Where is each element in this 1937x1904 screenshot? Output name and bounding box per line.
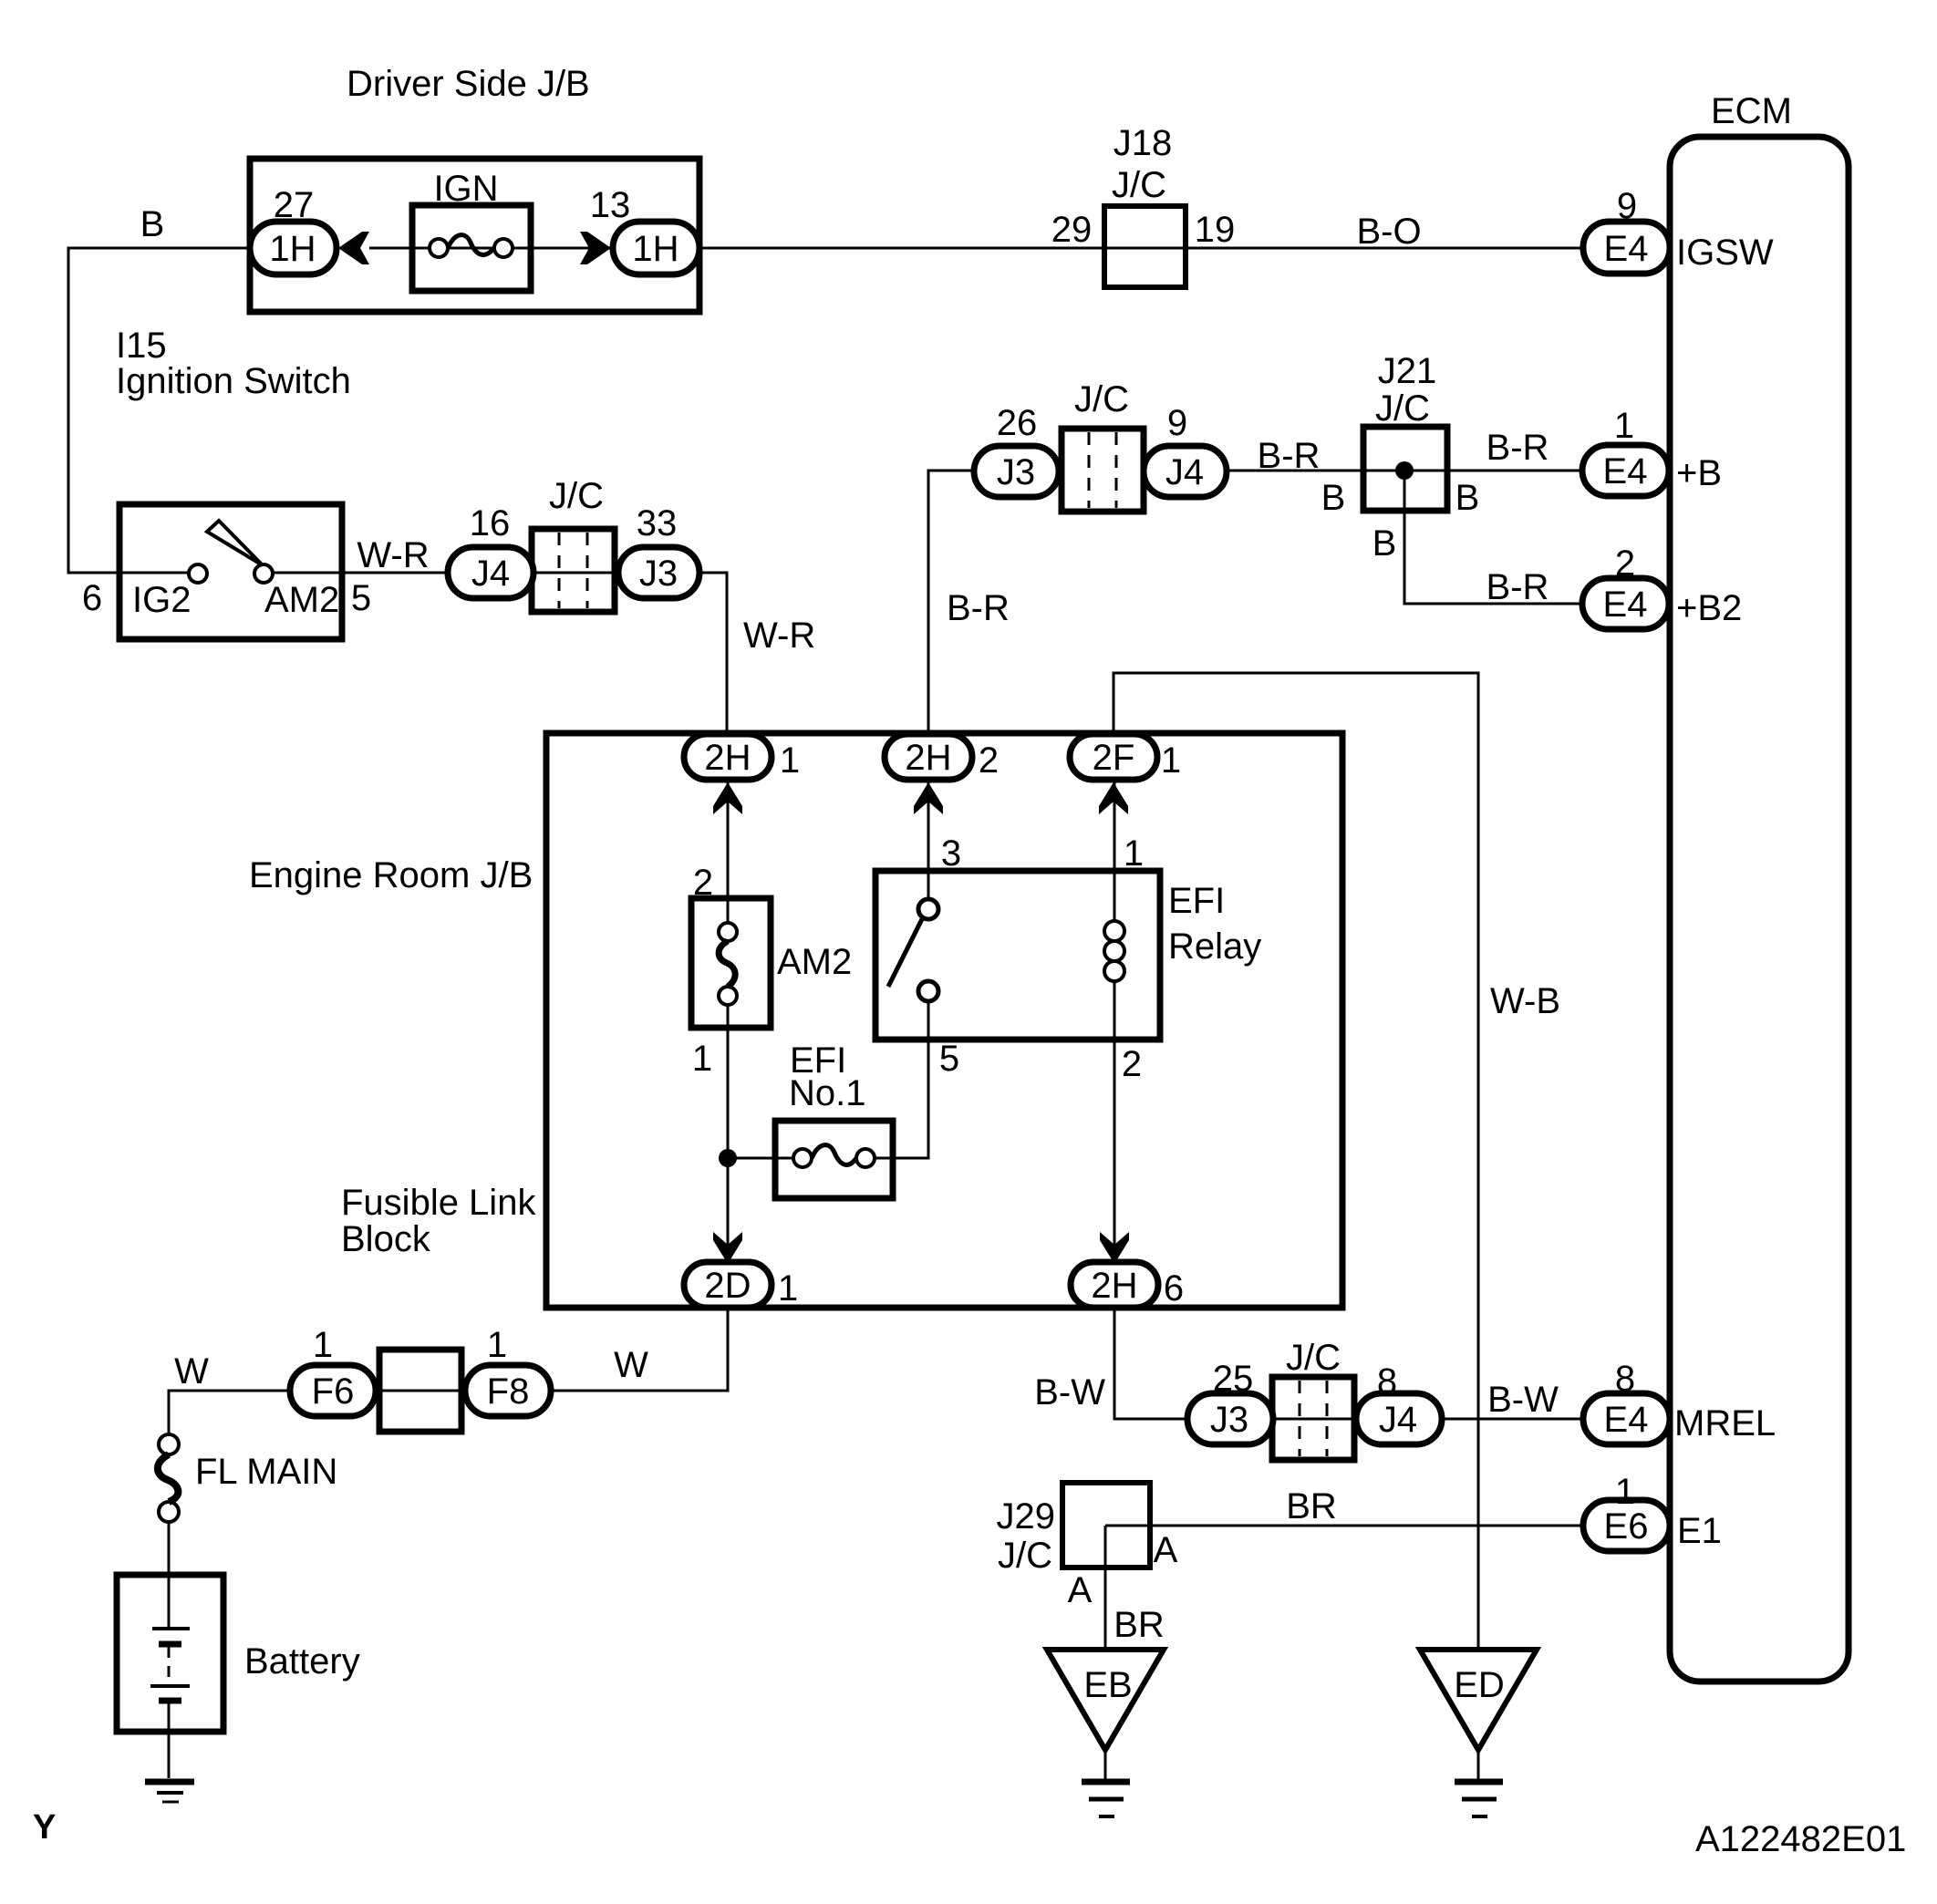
svg-text:26: 26	[997, 403, 1038, 443]
svg-text:6: 6	[82, 578, 102, 618]
svg-text:J/C: J/C	[1286, 1338, 1341, 1378]
svg-text:1: 1	[487, 1325, 507, 1365]
svg-text:16: 16	[470, 503, 511, 543]
svg-text:J/C: J/C	[1375, 388, 1430, 429]
svg-text:27: 27	[274, 185, 315, 225]
svg-text:I15: I15	[116, 326, 167, 366]
svg-text:J21: J21	[1378, 351, 1437, 391]
svg-text:IGSW: IGSW	[1676, 233, 1774, 273]
svg-text:2: 2	[1122, 1044, 1142, 1084]
svg-text:8: 8	[1615, 1359, 1635, 1399]
svg-text:1: 1	[1161, 740, 1181, 781]
svg-text:MREL: MREL	[1674, 1403, 1776, 1444]
svg-text:F6: F6	[312, 1371, 355, 1412]
svg-text:BR: BR	[1286, 1486, 1337, 1526]
svg-text:5: 5	[351, 578, 371, 618]
svg-text:B-R: B-R	[1486, 567, 1549, 607]
svg-text:J18: J18	[1114, 123, 1173, 163]
svg-text:E4: E4	[1603, 451, 1648, 492]
svg-text:9: 9	[1617, 186, 1637, 226]
svg-text:+B: +B	[1676, 453, 1722, 493]
svg-text:FL MAIN: FL MAIN	[195, 1452, 337, 1492]
svg-text:B: B	[1321, 478, 1346, 518]
svg-text:1H: 1H	[269, 229, 316, 269]
svg-text:A122482E01: A122482E01	[1695, 1819, 1906, 1859]
svg-text:5: 5	[939, 1039, 959, 1079]
svg-text:+B2: +B2	[1676, 588, 1742, 628]
svg-text:J29: J29	[997, 1496, 1056, 1537]
svg-text:Fusible Link: Fusible Link	[341, 1183, 536, 1223]
svg-text:J/C: J/C	[998, 1536, 1052, 1576]
svg-text:25: 25	[1213, 1359, 1254, 1399]
svg-text:EB: EB	[1083, 1665, 1132, 1705]
svg-text:W-R: W-R	[357, 535, 429, 575]
svg-text:2: 2	[979, 740, 999, 781]
svg-text:2H: 2H	[1091, 1266, 1137, 1306]
svg-text:1: 1	[1124, 833, 1144, 874]
svg-text:Y: Y	[33, 1808, 56, 1847]
svg-text:AM2: AM2	[264, 580, 339, 620]
svg-text:E1: E1	[1677, 1511, 1722, 1551]
svg-text:A: A	[1154, 1530, 1178, 1570]
svg-text:E4: E4	[1604, 1400, 1649, 1440]
svg-text:ED: ED	[1454, 1665, 1505, 1705]
svg-text:Driver Side J/B: Driver Side J/B	[347, 64, 590, 104]
svg-text:B-R: B-R	[1258, 436, 1321, 476]
svg-text:Battery: Battery	[244, 1641, 360, 1682]
svg-text:W: W	[174, 1351, 209, 1392]
svg-text:W-R: W-R	[743, 616, 815, 656]
svg-text:19: 19	[1195, 210, 1236, 250]
svg-text:B: B	[1455, 478, 1480, 518]
svg-text:J/C: J/C	[549, 476, 604, 516]
svg-text:1H: 1H	[632, 229, 678, 269]
svg-text:2: 2	[693, 863, 713, 903]
svg-text:1: 1	[1614, 406, 1634, 446]
svg-text:Ignition Switch: Ignition Switch	[116, 361, 351, 401]
svg-text:J4: J4	[471, 554, 510, 594]
svg-text:J3: J3	[997, 452, 1035, 492]
svg-text:6: 6	[1164, 1268, 1184, 1309]
svg-text:2H: 2H	[905, 738, 951, 778]
svg-text:B-O: B-O	[1356, 212, 1421, 252]
svg-text:EFI: EFI	[1168, 881, 1225, 921]
svg-text:29: 29	[1051, 210, 1093, 250]
svg-text:33: 33	[637, 503, 678, 543]
svg-text:E6: E6	[1604, 1506, 1649, 1547]
svg-text:E4: E4	[1604, 229, 1649, 269]
svg-text:BR: BR	[1114, 1605, 1165, 1645]
svg-text:2F: 2F	[1093, 738, 1135, 778]
svg-text:2D: 2D	[704, 1266, 751, 1306]
svg-text:F8: F8	[487, 1371, 530, 1412]
svg-text:9: 9	[1167, 403, 1187, 443]
svg-text:B-W: B-W	[1034, 1372, 1105, 1412]
svg-text:B: B	[140, 204, 165, 244]
svg-text:1: 1	[780, 740, 800, 781]
svg-text:3: 3	[941, 833, 961, 874]
svg-text:Block: Block	[341, 1219, 431, 1259]
svg-text:No.1: No.1	[789, 1073, 866, 1113]
svg-text:Engine Room J/B: Engine Room J/B	[249, 855, 533, 895]
svg-text:1: 1	[692, 1039, 712, 1079]
svg-text:IGN: IGN	[433, 169, 498, 209]
svg-text:2: 2	[1615, 543, 1635, 584]
svg-text:8: 8	[1377, 1361, 1397, 1402]
svg-text:ECM: ECM	[1711, 91, 1792, 131]
svg-text:J/C: J/C	[1074, 379, 1129, 419]
svg-text:J3: J3	[1210, 1400, 1248, 1440]
svg-text:B-W: B-W	[1487, 1380, 1559, 1420]
svg-text:1: 1	[313, 1325, 333, 1365]
svg-text:B-R: B-R	[1486, 428, 1549, 468]
svg-text:1: 1	[778, 1268, 798, 1309]
svg-text:J4: J4	[1379, 1400, 1417, 1440]
svg-text:AM2: AM2	[777, 942, 852, 982]
svg-text:Relay: Relay	[1168, 926, 1261, 967]
svg-text:13: 13	[590, 185, 631, 225]
svg-text:IG2: IG2	[132, 580, 191, 620]
svg-text:W-B: W-B	[1490, 981, 1560, 1021]
svg-text:J4: J4	[1165, 452, 1204, 492]
svg-text:W: W	[614, 1345, 648, 1385]
svg-text:B: B	[1372, 523, 1397, 564]
svg-text:E4: E4	[1603, 585, 1648, 625]
svg-text:J3: J3	[639, 554, 678, 594]
svg-text:B-R: B-R	[947, 588, 1010, 628]
svg-text:J/C: J/C	[1112, 165, 1166, 205]
svg-text:2H: 2H	[704, 738, 751, 778]
svg-text:A: A	[1068, 1570, 1093, 1610]
